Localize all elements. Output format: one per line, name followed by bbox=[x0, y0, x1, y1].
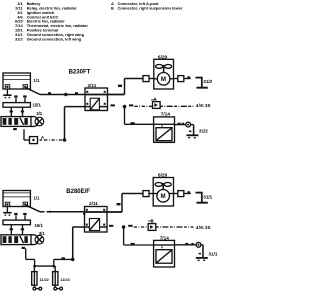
svg-text:31/2: 31/2 bbox=[199, 129, 208, 134]
wire connector A to junction (dash-dot) bbox=[44, 139, 65, 141]
svg-text:3/1: 3/1 bbox=[39, 231, 46, 236]
wire thermostat to ground bbox=[175, 123, 186, 125]
node splice on feed wire bbox=[64, 93, 67, 96]
battery 1/1 bbox=[3, 191, 30, 207]
relay 2/11 bbox=[85, 88, 108, 111]
svg-text:7/14: 7/14 bbox=[160, 235, 170, 240]
svg-text:A: A bbox=[41, 135, 44, 140]
svg-text:A: A bbox=[154, 97, 157, 102]
svg-text:15/1: 15/1 bbox=[33, 103, 42, 108]
ground battery top bbox=[3, 89, 11, 98]
battery 1/1 bbox=[3, 73, 30, 89]
connector single pin (circle) bbox=[196, 242, 201, 247]
electric fan 6/29 bbox=[154, 59, 174, 89]
svg-text:15/1: 15/1 bbox=[35, 223, 44, 228]
fuse 11/23 bbox=[53, 266, 63, 290]
connector fan left bbox=[143, 191, 149, 197]
wire ignition to connector A bbox=[24, 129, 30, 140]
thermostat 7/14 bbox=[154, 240, 175, 267]
svg-text:7/14: 7/14 bbox=[161, 112, 171, 117]
connector fan right bbox=[174, 76, 191, 82]
legend right column bbox=[111, 1, 183, 10]
svg-text:6/29: 6/29 bbox=[158, 173, 168, 178]
wire connector B to ECC 4/6:30 bbox=[156, 226, 194, 228]
positive terminal 15/1 bbox=[3, 103, 30, 108]
wire battery to relay bbox=[25, 87, 124, 94]
svg-text:4/6:30: 4/6:30 bbox=[196, 225, 211, 231]
svg-text:B: B bbox=[111, 5, 114, 10]
ground 31/1 thermostat bbox=[196, 245, 208, 260]
connector A2 (box with arrow) bbox=[153, 102, 161, 109]
wire 15/1 to ignition switch bbox=[10, 107, 25, 116]
node splice on feed wire bbox=[49, 211, 51, 213]
svg-text:1/1: 1/1 bbox=[34, 196, 41, 201]
svg-text:Ground connection, left wing: Ground connection, left wing bbox=[27, 36, 82, 41]
wire junction up to relay coil bbox=[65, 107, 86, 140]
ground 31/2 fan top bbox=[196, 78, 208, 88]
connector fan right bbox=[174, 191, 191, 197]
connector B (box with arrow) bbox=[148, 224, 156, 231]
node junction ignition feed bbox=[63, 138, 67, 142]
wire junction to connector A2 (dash-dot) bbox=[135, 105, 153, 107]
wire ignition down to fuse rail bbox=[26, 248, 73, 266]
svg-text:M: M bbox=[161, 76, 166, 83]
svg-text:B230FT: B230FT bbox=[69, 69, 91, 75]
svg-text:11/23: 11/23 bbox=[60, 278, 69, 282]
wire connector A2 to ECC 4/6:30 bbox=[160, 105, 193, 107]
svg-text:B280E/F: B280E/F bbox=[66, 189, 90, 195]
connector fan left bbox=[143, 76, 149, 82]
ignition switch 3/1 bbox=[1, 117, 44, 127]
ground 31/2 thermostat bbox=[186, 125, 198, 138]
ignition switch 3/1 bbox=[1, 235, 44, 245]
fuse 11/22 bbox=[32, 266, 42, 290]
node fuse rail junctions bbox=[33, 265, 36, 268]
svg-text:4/6:30: 4/6:30 bbox=[196, 103, 211, 109]
node junction relay coil output bbox=[122, 225, 126, 229]
svg-text:31/2: 31/2 bbox=[15, 36, 23, 41]
node junction relay coil output bbox=[123, 105, 127, 109]
relay 2/11 bbox=[85, 207, 108, 233]
wire feed stubs to 15/1 bbox=[14, 213, 26, 220]
svg-text:3/1: 3/1 bbox=[36, 111, 43, 116]
wire thermostat to ground bbox=[175, 243, 197, 245]
thermostat 7/14 bbox=[154, 117, 175, 142]
wire junction down to thermostat bbox=[125, 107, 154, 125]
wire feed stubs to 15/1 bbox=[14, 95, 26, 102]
svg-text:31/2: 31/2 bbox=[203, 79, 212, 84]
svg-text:M: M bbox=[161, 193, 166, 200]
svg-text:11/22: 11/22 bbox=[40, 278, 49, 282]
electric fan 6/29 bbox=[153, 178, 173, 207]
wire junction down to thermostat bbox=[124, 227, 154, 245]
svg-text:31/1: 31/1 bbox=[209, 251, 218, 256]
svg-text:6/29: 6/29 bbox=[158, 54, 168, 59]
wire relay to fan (corner up) bbox=[107, 194, 143, 213]
connector A (box) bbox=[30, 137, 38, 144]
svg-text:1/1: 1/1 bbox=[34, 78, 41, 83]
connector single pin (circle) bbox=[186, 122, 191, 127]
wire fuse rail up to relay coil bbox=[73, 227, 85, 259]
svg-text:31/1: 31/1 bbox=[203, 194, 212, 199]
wire 15/1 to ignition switch bbox=[10, 225, 25, 235]
positive terminal 15/1 bbox=[3, 220, 30, 225]
wire battery to relay bbox=[25, 205, 122, 212]
svg-text:2/11: 2/11 bbox=[89, 201, 98, 206]
svg-text:2/11: 2/11 bbox=[88, 83, 97, 88]
svg-text:Connector, right suspension to: Connector, right suspension tower bbox=[118, 5, 183, 10]
legend left column bbox=[15, 1, 88, 41]
ground 31/1 fan bottom bbox=[196, 193, 208, 203]
ground battery bottom bbox=[3, 207, 11, 216]
wire junction to connector B (dash-dot) bbox=[134, 226, 148, 228]
wire relay to fan (corner up) bbox=[108, 79, 144, 95]
